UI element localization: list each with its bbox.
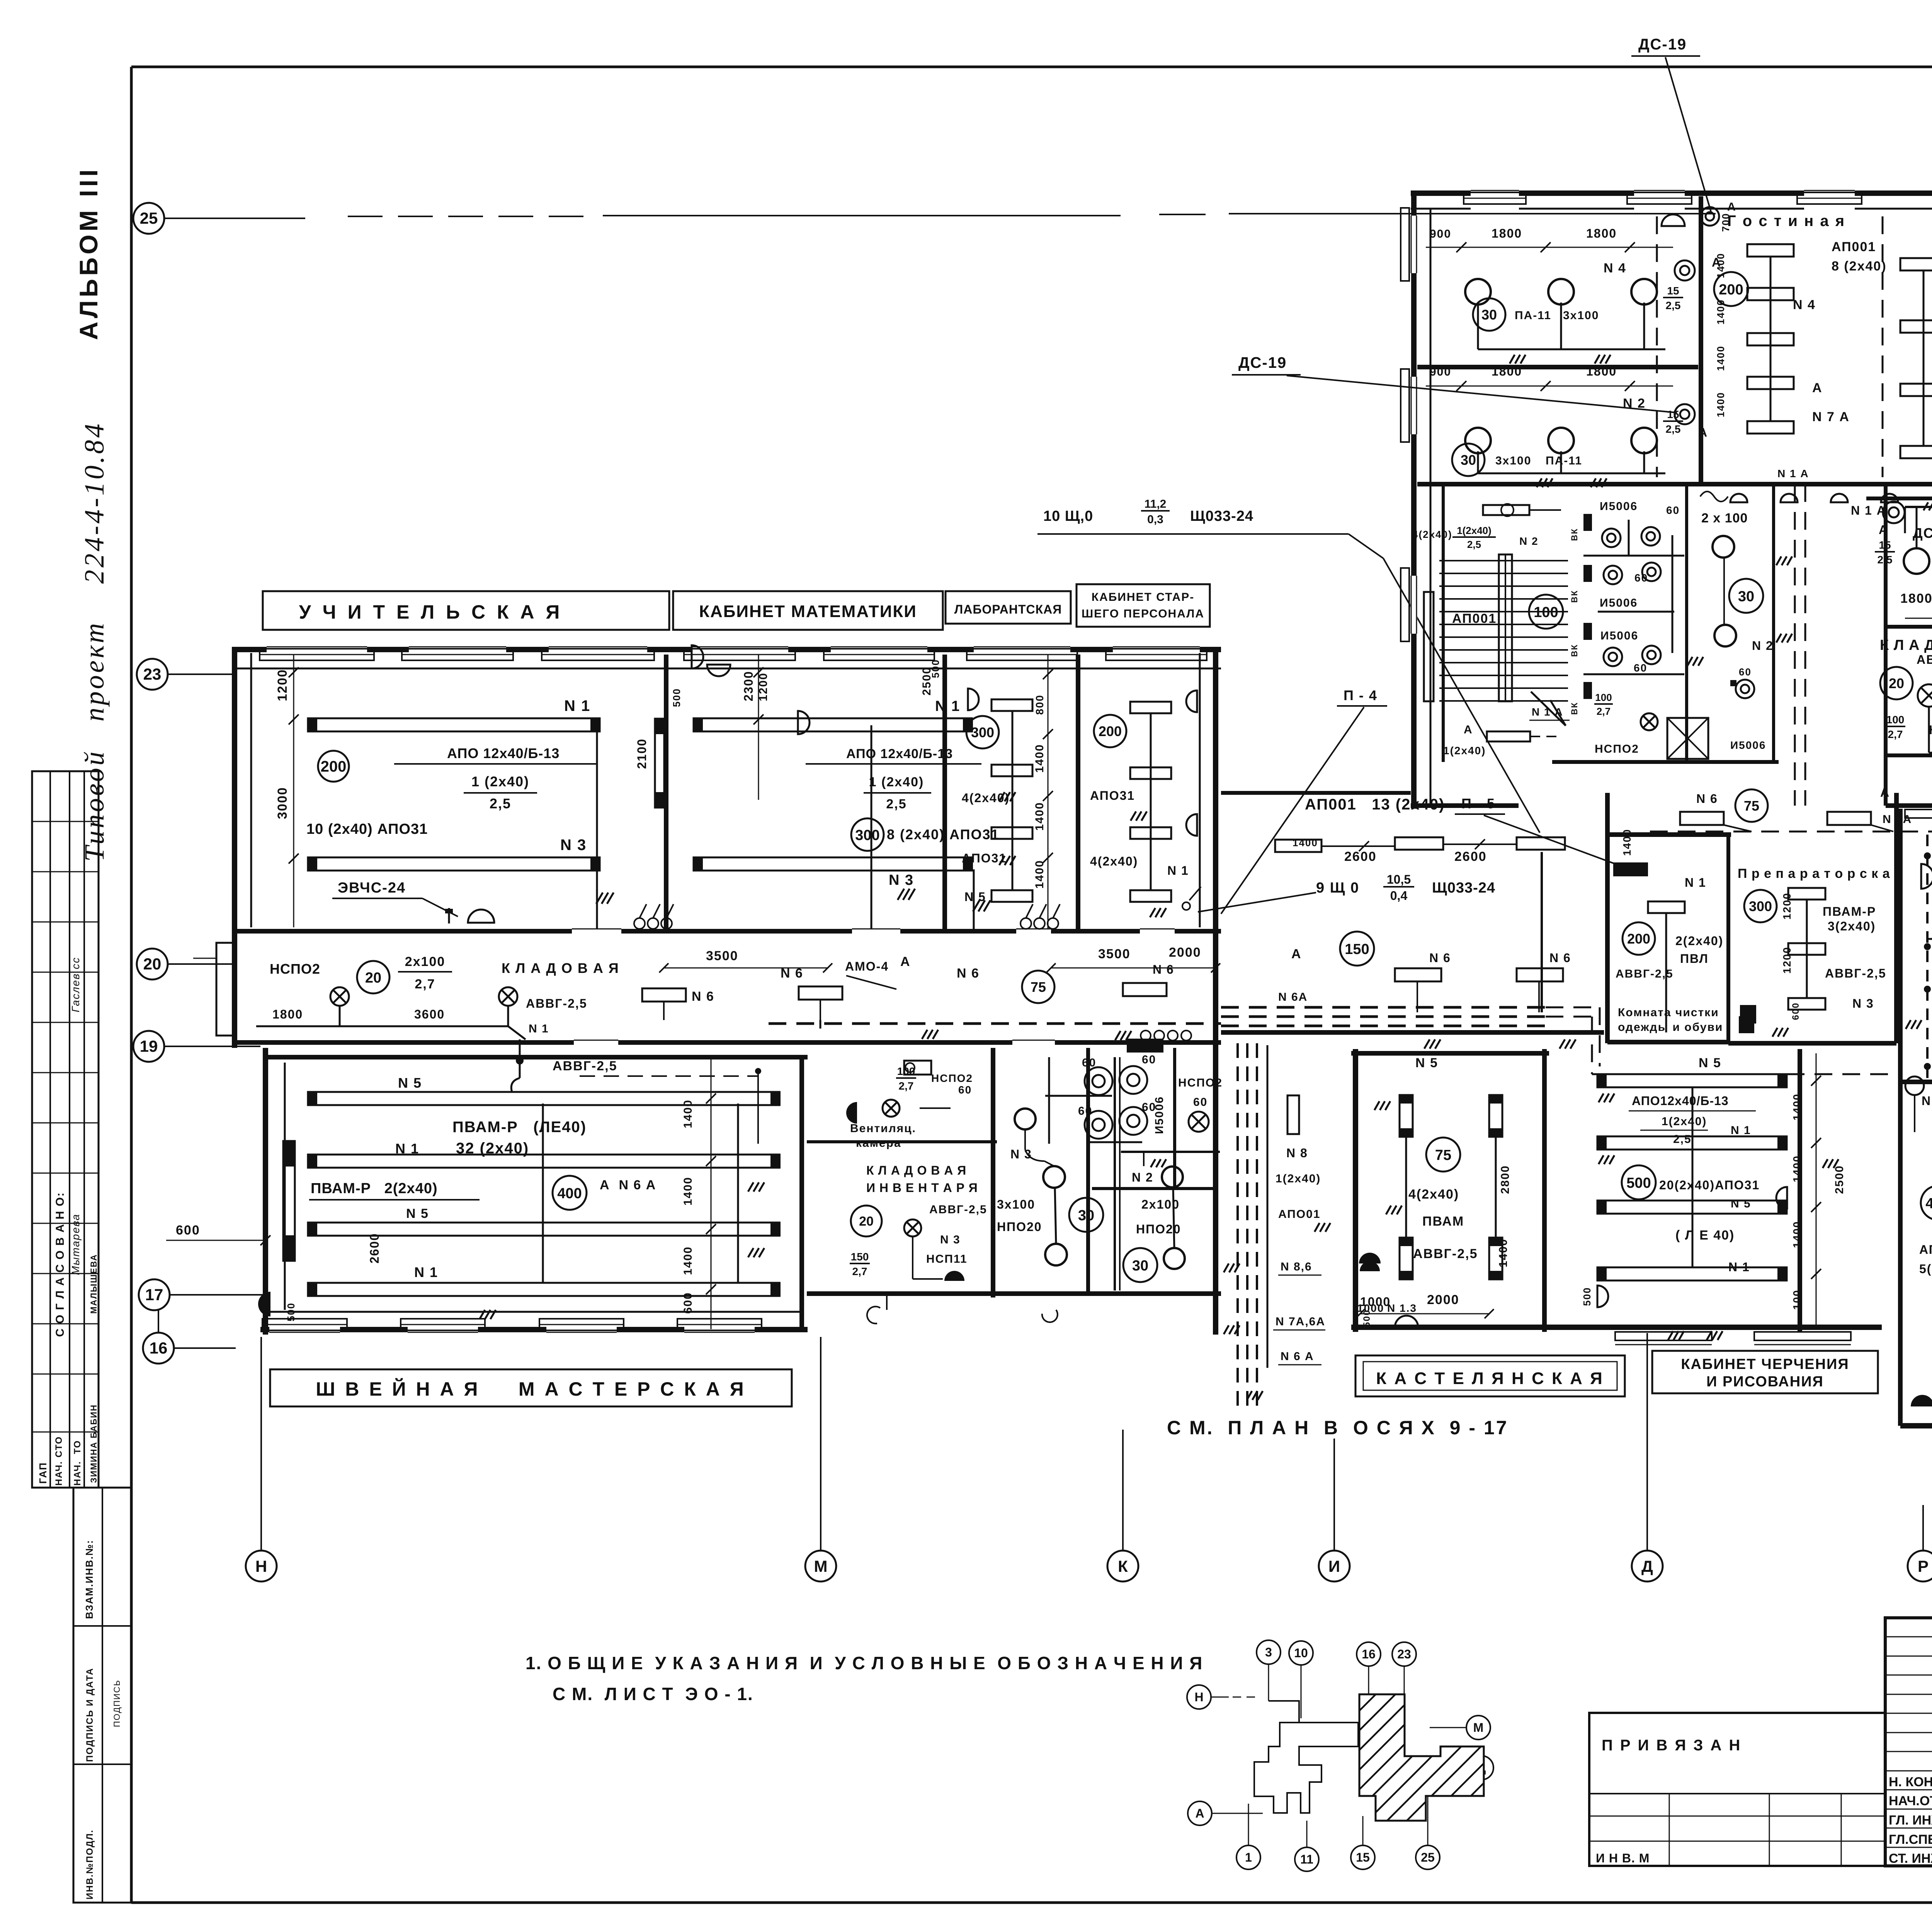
svg-text:1400: 1400 bbox=[682, 1177, 694, 1206]
svg-text:N 3: N 3 bbox=[940, 1233, 961, 1246]
svg-text:N 8: N 8 bbox=[1286, 1146, 1308, 1160]
svg-text:30: 30 bbox=[1132, 1258, 1148, 1274]
svg-text:3(2х40): 3(2х40) bbox=[1828, 919, 1876, 933]
svg-text:300: 300 bbox=[971, 724, 994, 740]
svg-text:N 5: N 5 bbox=[398, 1075, 422, 1091]
svg-text:23: 23 bbox=[1397, 1647, 1411, 1661]
svg-text:Р: Р bbox=[1918, 1557, 1929, 1575]
svg-text:15: 15 bbox=[1667, 285, 1679, 297]
svg-text:ДС-19: ДС-19 bbox=[1638, 36, 1687, 53]
svg-text:30: 30 bbox=[1078, 1207, 1094, 1224]
svg-text:ПВАМ: ПВАМ bbox=[1422, 1214, 1464, 1229]
svg-text:НСПО2: НСПО2 bbox=[270, 961, 320, 977]
svg-text:С М. Л И С Т Э О - 1.: С М. Л И С Т Э О - 1. bbox=[553, 1684, 753, 1704]
svg-text:1 (2х40): 1 (2х40) bbox=[869, 775, 924, 789]
svg-text:К Л А Д О В А Я: К Л А Д О В А Я bbox=[1880, 637, 1932, 653]
svg-text:Комната чистки: Комната чистки bbox=[1618, 1006, 1719, 1019]
svg-text:1400: 1400 bbox=[1497, 1238, 1510, 1267]
svg-text:N 6 А: N 6 А bbox=[1281, 1350, 1314, 1363]
svg-text:1800: 1800 bbox=[1586, 364, 1617, 378]
svg-text:11,2: 11,2 bbox=[1145, 498, 1167, 510]
svg-text:1. О Б Щ И Е У К А З А Н И Я: 1. О Б Щ И Е У К А З А Н И Я И У С Л О В… bbox=[526, 1653, 1203, 1673]
svg-text:ПА-11: ПА-11 bbox=[1546, 454, 1582, 467]
svg-text:N 6: N 6 bbox=[1549, 951, 1571, 965]
svg-text:АВВГ-2,5: АВВГ-2,5 bbox=[1413, 1246, 1478, 1261]
svg-text:N 6: N 6 bbox=[1429, 951, 1451, 965]
svg-text:А: А bbox=[1195, 1806, 1204, 1820]
svg-text:А: А bbox=[1464, 723, 1473, 736]
svg-text:НСПО2: НСПО2 bbox=[1595, 743, 1639, 755]
svg-text:НАЧ. ТО: НАЧ. ТО bbox=[72, 1440, 83, 1486]
svg-text:1(2х40): 1(2х40) bbox=[1276, 1172, 1321, 1185]
svg-text:800: 800 bbox=[1034, 694, 1046, 715]
svg-text:АПО 12х40/Б-13: АПО 12х40/Б-13 bbox=[846, 747, 953, 761]
svg-text:А N 6 А: А N 6 А bbox=[600, 1178, 656, 1192]
svg-text:АВВГ-2,5: АВВГ-2,5 bbox=[1917, 653, 1932, 667]
svg-text:И5006: И5006 bbox=[1600, 500, 1638, 513]
svg-text:2600: 2600 bbox=[1344, 849, 1377, 864]
svg-text:2,5: 2,5 bbox=[1666, 299, 1681, 311]
svg-text:И Н В Е Н Т А Р Я: И Н В Е Н Т А Р Я bbox=[866, 1181, 978, 1195]
svg-text:N 5: N 5 bbox=[1699, 1056, 1721, 1070]
svg-text:25: 25 bbox=[1421, 1850, 1435, 1864]
svg-text:Гаслев сс: Гаслев сс bbox=[70, 957, 82, 1012]
svg-text:60: 60 bbox=[1082, 1056, 1096, 1069]
svg-text:2500: 2500 bbox=[1833, 1165, 1846, 1194]
svg-text:М: М bbox=[814, 1557, 828, 1575]
svg-text:ВЗАМ.ИНВ.№:: ВЗАМ.ИНВ.№: bbox=[83, 1540, 95, 1619]
svg-text:И5006: И5006 bbox=[1730, 739, 1766, 751]
svg-text:ЗИМИНА БАБИН: ЗИМИНА БАБИН bbox=[89, 1404, 99, 1483]
svg-text:10 (2х40) АПО31: 10 (2х40) АПО31 bbox=[306, 821, 428, 837]
svg-text:ПВЛ: ПВЛ bbox=[1680, 952, 1709, 966]
svg-text:1400: 1400 bbox=[1621, 829, 1633, 856]
svg-text:N 1: N 1 bbox=[1685, 876, 1706, 889]
svg-text:16: 16 bbox=[150, 1339, 168, 1357]
svg-text:2,5: 2,5 bbox=[1878, 554, 1893, 566]
svg-text:2,7: 2,7 bbox=[852, 1265, 867, 1277]
svg-text:17: 17 bbox=[145, 1286, 163, 1304]
svg-text:N 1: N 1 bbox=[395, 1141, 419, 1156]
svg-text:С М. П Л А Н В О С Я Х 9 -: С М. П Л А Н В О С Я Х 9 - 17 bbox=[1167, 1417, 1509, 1439]
svg-text:АВВГ-2,5: АВВГ-2,5 bbox=[553, 1059, 617, 1073]
svg-text:4(2х40): 4(2х40) bbox=[1090, 854, 1138, 868]
svg-text:100: 100 bbox=[1595, 692, 1612, 703]
svg-text:1(2х40): 1(2х40) bbox=[1662, 1115, 1707, 1128]
svg-text:20(2х40)АПО31: 20(2х40)АПО31 bbox=[1659, 1178, 1760, 1192]
svg-text:N 6А: N 6А bbox=[1278, 991, 1308, 1003]
svg-text:1800: 1800 bbox=[1492, 226, 1522, 240]
svg-text:2,5: 2,5 bbox=[490, 796, 511, 811]
svg-text:8 (2х40): 8 (2х40) bbox=[1832, 259, 1887, 274]
svg-text:ПВАМ-Р: ПВАМ-Р bbox=[1823, 905, 1876, 918]
svg-text:2,7: 2,7 bbox=[415, 977, 435, 991]
svg-text:20: 20 bbox=[143, 955, 162, 973]
svg-text:60: 60 bbox=[1634, 572, 1648, 584]
svg-text:К А С Т Е Л Я Н С К А Я: К А С Т Е Л Я Н С К А Я bbox=[1376, 1369, 1604, 1388]
svg-text:75: 75 bbox=[1435, 1147, 1451, 1163]
svg-text:НАЧ.ОТД.: НАЧ.ОТД. bbox=[1889, 1794, 1932, 1808]
svg-text:15: 15 bbox=[1667, 408, 1679, 420]
svg-text:300: 300 bbox=[1749, 898, 1772, 914]
svg-text:4(2х40): 4(2х40) bbox=[1412, 529, 1452, 540]
svg-text:N 3: N 3 bbox=[560, 837, 587, 854]
svg-text:11: 11 bbox=[1300, 1852, 1313, 1866]
svg-text:N 1.3: N 1.3 bbox=[1387, 1302, 1417, 1314]
svg-text:И РИСОВАНИЯ: И РИСОВАНИЯ bbox=[1706, 1374, 1824, 1390]
svg-text:N 1: N 1 bbox=[1167, 864, 1189, 877]
svg-text:1400: 1400 bbox=[1791, 1155, 1803, 1182]
svg-text:3х100: 3х100 bbox=[1563, 309, 1599, 322]
svg-text:N 6: N 6 bbox=[957, 966, 980, 981]
svg-text:19: 19 bbox=[140, 1037, 158, 1055]
svg-text:камера: камера bbox=[856, 1137, 901, 1150]
svg-text:500: 500 bbox=[285, 1303, 297, 1321]
svg-text:N 6: N 6 bbox=[692, 989, 714, 1004]
svg-text:3500: 3500 bbox=[706, 949, 738, 963]
svg-text:ПВАМ-Р (ЛЕ40): ПВАМ-Р (ЛЕ40) bbox=[452, 1119, 587, 1136]
svg-text:200: 200 bbox=[1719, 282, 1743, 298]
svg-text:N 5: N 5 bbox=[406, 1206, 429, 1221]
svg-text:10,5: 10,5 bbox=[1387, 872, 1411, 886]
svg-text:1400: 1400 bbox=[682, 1246, 694, 1275]
svg-text:1400: 1400 bbox=[682, 1099, 694, 1128]
svg-text:ВК: ВК bbox=[1570, 644, 1579, 657]
svg-text:2,5: 2,5 bbox=[1467, 539, 1481, 550]
svg-text:3х100: 3х100 bbox=[1495, 454, 1531, 467]
svg-text:60: 60 bbox=[1634, 662, 1647, 674]
svg-text:1400: 1400 bbox=[1791, 1221, 1803, 1248]
svg-text:К Л А Д О В А Я: К Л А Д О В А Я bbox=[502, 960, 619, 976]
svg-text:2х100: 2х100 bbox=[405, 954, 446, 969]
svg-text:8 (2х40) АПО31: 8 (2х40) АПО31 bbox=[887, 826, 1000, 842]
svg-text:500: 500 bbox=[1362, 1309, 1372, 1327]
svg-text:N 7А,6А: N 7А,6А bbox=[1276, 1315, 1325, 1328]
svg-text:30: 30 bbox=[1738, 588, 1754, 605]
svg-text:С О Г Л А С О В А Н О:: С О Г Л А С О В А Н О: bbox=[54, 1192, 66, 1337]
svg-text:ГЛ.СПЕЦ.: ГЛ.СПЕЦ. bbox=[1889, 1832, 1932, 1847]
svg-text:2,5: 2,5 bbox=[1666, 423, 1681, 435]
svg-text:А: А bbox=[1698, 425, 1708, 439]
svg-text:100: 100 bbox=[1534, 604, 1558, 621]
svg-text:60: 60 bbox=[958, 1084, 972, 1096]
svg-text:Мытарева: Мытарева bbox=[70, 1214, 82, 1275]
svg-text:ПОДПИСЬ: ПОДПИСЬ bbox=[112, 1680, 122, 1727]
svg-text:N 6: N 6 bbox=[1696, 792, 1718, 806]
svg-text:КАБИНЕТ МАТЕМАТИКИ: КАБИНЕТ МАТЕМАТИКИ bbox=[699, 602, 917, 621]
svg-text:10 Щ,0: 10 Щ,0 bbox=[1043, 508, 1093, 524]
svg-text:N 5: N 5 bbox=[1415, 1056, 1438, 1070]
svg-text:1(2х40): 1(2х40) bbox=[1443, 745, 1486, 757]
svg-text:N 5: N 5 bbox=[1731, 1197, 1751, 1210]
svg-text:АВВГ-2,5: АВВГ-2,5 bbox=[1825, 966, 1886, 980]
svg-text:1400: 1400 bbox=[1791, 1093, 1803, 1121]
svg-text:АПО01: АПО01 bbox=[1278, 1208, 1321, 1221]
svg-text:Г о с т и н а я: Г о с т и н а я bbox=[1727, 213, 1845, 230]
svg-text:МАЛЫШЕВА: МАЛЫШЕВА bbox=[89, 1254, 99, 1314]
svg-text:И5006: И5006 bbox=[1153, 1096, 1166, 1134]
svg-text:Щ033-24: Щ033-24 bbox=[1432, 880, 1495, 896]
svg-text:1400: 1400 bbox=[1715, 392, 1726, 417]
svg-text:N 8: N 8 bbox=[1922, 1094, 1932, 1108]
svg-text:НСП11: НСП11 bbox=[926, 1253, 968, 1265]
svg-text:N 1 А: N 1 А bbox=[1851, 503, 1886, 517]
svg-text:Щ033-24: Щ033-24 bbox=[1190, 508, 1253, 524]
svg-text:N 3: N 3 bbox=[1010, 1147, 1032, 1161]
svg-text:500: 500 bbox=[1626, 1175, 1651, 1191]
svg-text:1400: 1400 bbox=[1715, 345, 1726, 371]
svg-text:1800: 1800 bbox=[1492, 364, 1522, 378]
svg-text:0,4: 0,4 bbox=[1390, 889, 1408, 903]
svg-text:5(2х40): 5(2х40) bbox=[1919, 1262, 1932, 1276]
svg-text:60: 60 bbox=[1666, 504, 1680, 516]
svg-text:1: 1 bbox=[1245, 1850, 1252, 1864]
svg-text:2 х 100: 2 х 100 bbox=[1701, 511, 1748, 525]
svg-text:А: А bbox=[900, 954, 911, 969]
svg-text:Н: Н bbox=[1194, 1690, 1203, 1704]
svg-text:Ш В Е Й Н А Я М А С Т Е Р: Ш В Е Й Н А Я М А С Т Е Р С К А Я bbox=[316, 1378, 746, 1400]
svg-text:одежды и обуви: одежды и обуви bbox=[1618, 1021, 1723, 1034]
svg-text:400: 400 bbox=[1925, 1195, 1932, 1212]
svg-text:АПО12х40/Б-13: АПО12х40/Б-13 bbox=[1632, 1094, 1729, 1108]
svg-text:2000: 2000 bbox=[1427, 1292, 1459, 1307]
svg-text:ДС-19: ДС-19 bbox=[1238, 354, 1287, 371]
svg-text:N 2: N 2 bbox=[1132, 1170, 1153, 1184]
svg-text:Н. КОНТР.: Н. КОНТР. bbox=[1889, 1775, 1932, 1789]
svg-text:900: 900 bbox=[1430, 366, 1451, 378]
svg-text:2,7: 2,7 bbox=[899, 1080, 914, 1092]
svg-text:N 1: N 1 bbox=[414, 1264, 438, 1280]
svg-text:ШЕГО ПЕРСОНАЛА: ШЕГО ПЕРСОНАЛА bbox=[1082, 607, 1204, 620]
svg-text:1800: 1800 bbox=[1586, 226, 1617, 240]
svg-text:СТ. ИНЖ.: СТ. ИНЖ. bbox=[1889, 1851, 1932, 1866]
svg-text:К: К bbox=[1118, 1557, 1128, 1575]
svg-text:N 1: N 1 bbox=[935, 698, 960, 714]
svg-text:500: 500 bbox=[1581, 1287, 1593, 1306]
svg-text:2600: 2600 bbox=[1454, 849, 1487, 864]
svg-text:АВВГ-2,5: АВВГ-2,5 bbox=[526, 997, 587, 1010]
svg-text:Типовой проект 224-4-10.8: Типовой проект 224-4-10.84 bbox=[79, 422, 110, 862]
svg-text:КАБИНЕТ ЧЕРЧЕНИЯ: КАБИНЕТ ЧЕРЧЕНИЯ bbox=[1681, 1356, 1849, 1372]
svg-text:2(2х40): 2(2х40) bbox=[1675, 934, 1723, 948]
svg-text:1400: 1400 bbox=[1715, 253, 1726, 278]
svg-text:60: 60 bbox=[1193, 1096, 1207, 1109]
svg-text:( Л Е 40): ( Л Е 40) bbox=[1675, 1228, 1735, 1243]
svg-text:200: 200 bbox=[1099, 723, 1122, 739]
svg-text:АП001: АП001 bbox=[1832, 240, 1876, 254]
svg-text:N 1: N 1 bbox=[529, 1022, 549, 1035]
svg-text:N 1: N 1 bbox=[1728, 1260, 1750, 1274]
svg-text:300: 300 bbox=[855, 827, 879, 843]
svg-text:1400: 1400 bbox=[1293, 837, 1318, 849]
svg-text:П - 4: П - 4 bbox=[1344, 687, 1378, 703]
svg-text:N 8,6: N 8,6 bbox=[1281, 1260, 1312, 1273]
svg-text:30: 30 bbox=[1461, 452, 1476, 468]
svg-text:3600: 3600 bbox=[414, 1007, 445, 1021]
svg-text:900: 900 bbox=[1430, 228, 1451, 240]
svg-text:НСПО2: НСПО2 bbox=[1178, 1076, 1223, 1089]
svg-text:Д: Д bbox=[1641, 1557, 1653, 1575]
svg-text:2,5: 2,5 bbox=[886, 797, 906, 811]
svg-text:60: 60 bbox=[1739, 666, 1752, 678]
svg-text:АПО31: АПО31 bbox=[1919, 1243, 1932, 1257]
svg-text:АПО 12х40/Б-13: АПО 12х40/Б-13 bbox=[447, 745, 560, 761]
svg-text:И5006: И5006 bbox=[1600, 597, 1638, 609]
svg-text:0,3: 0,3 bbox=[1147, 513, 1163, 526]
svg-text:150: 150 bbox=[1345, 941, 1369, 957]
svg-text:2,5: 2,5 bbox=[1673, 1133, 1692, 1146]
svg-text:60: 60 bbox=[1142, 1053, 1156, 1066]
svg-text:А: А bbox=[1812, 381, 1823, 395]
svg-text:500: 500 bbox=[671, 688, 682, 707]
svg-text:N 1 А: N 1 А bbox=[1777, 468, 1809, 480]
svg-text:А: А bbox=[1291, 947, 1302, 961]
svg-text:4(2х40): 4(2х40) bbox=[962, 791, 1010, 805]
svg-text:А: А bbox=[1727, 201, 1736, 213]
svg-text:75: 75 bbox=[1744, 798, 1759, 814]
svg-text:3: 3 bbox=[1265, 1645, 1272, 1659]
svg-text:N 2: N 2 bbox=[1519, 535, 1539, 547]
svg-text:1 (2х40): 1 (2х40) bbox=[471, 774, 529, 789]
svg-text:200: 200 bbox=[1627, 931, 1650, 947]
svg-text:1400: 1400 bbox=[1033, 744, 1046, 773]
svg-text:ГЛ. ИНЖ.: ГЛ. ИНЖ. bbox=[1889, 1813, 1932, 1828]
svg-text:1400: 1400 bbox=[1033, 802, 1046, 831]
svg-text:1400: 1400 bbox=[1033, 860, 1046, 889]
svg-text:23: 23 bbox=[143, 665, 162, 683]
svg-text:К Л А Д О В А Я: К Л А Д О В А Я bbox=[866, 1163, 966, 1177]
svg-text:500: 500 bbox=[930, 659, 941, 678]
svg-text:3500: 3500 bbox=[1098, 947, 1131, 961]
svg-text:600: 600 bbox=[682, 1292, 694, 1314]
svg-text:ИНВ.№ПОДЛ.: ИНВ.№ПОДЛ. bbox=[85, 1829, 95, 1899]
svg-text:1200: 1200 bbox=[1781, 893, 1793, 920]
svg-text:2800: 2800 bbox=[1499, 1165, 1512, 1194]
svg-text:3х100: 3х100 bbox=[997, 1197, 1035, 1211]
svg-text:ВК: ВК bbox=[1570, 702, 1579, 715]
svg-text:150: 150 bbox=[851, 1251, 869, 1263]
svg-text:2,7: 2,7 bbox=[1888, 728, 1903, 740]
svg-text:15: 15 bbox=[1879, 539, 1891, 551]
svg-text:ВК: ВК bbox=[1570, 528, 1579, 541]
svg-text:2000: 2000 bbox=[1169, 945, 1201, 960]
svg-text:М: М bbox=[1473, 1721, 1484, 1735]
svg-text:N 3: N 3 bbox=[889, 872, 914, 888]
svg-text:25: 25 bbox=[140, 209, 158, 227]
svg-text:N 6: N 6 bbox=[1153, 963, 1174, 976]
svg-text:N 4: N 4 bbox=[1793, 298, 1816, 312]
svg-text:2,7: 2,7 bbox=[1597, 706, 1611, 717]
svg-text:АП001: АП001 bbox=[1452, 611, 1497, 626]
svg-text:ПВАМ-Р 2(2х40): ПВАМ-Р 2(2х40) bbox=[311, 1180, 438, 1197]
svg-text:АВВГ-2,5: АВВГ-2,5 bbox=[929, 1203, 987, 1216]
svg-text:АМО-4: АМО-4 bbox=[845, 959, 889, 973]
svg-text:3000: 3000 bbox=[275, 787, 290, 819]
svg-text:2300: 2300 bbox=[742, 671, 755, 701]
svg-text:N 5: N 5 bbox=[964, 890, 986, 904]
svg-text:600: 600 bbox=[1791, 1002, 1801, 1020]
svg-text:30: 30 bbox=[1481, 307, 1497, 323]
svg-text:1(2х40): 1(2х40) bbox=[1457, 525, 1492, 536]
svg-text:НАЧ. СТО: НАЧ. СТО bbox=[54, 1436, 64, 1486]
svg-text:600: 600 bbox=[176, 1223, 200, 1238]
svg-text:2х100: 2х100 bbox=[1141, 1197, 1180, 1211]
svg-text:100: 100 bbox=[1791, 1289, 1803, 1310]
svg-text:N 3: N 3 bbox=[1852, 997, 1874, 1010]
svg-text:N 4: N 4 bbox=[1604, 261, 1626, 275]
svg-text:1200: 1200 bbox=[1781, 947, 1793, 974]
svg-text:1200: 1200 bbox=[275, 669, 290, 701]
svg-text:4(2х40): 4(2х40) bbox=[1408, 1187, 1459, 1202]
svg-text:N 7 А: N 7 А bbox=[1812, 410, 1850, 424]
svg-text:Вентиляц.: Вентиляц. bbox=[850, 1122, 916, 1135]
svg-text:НСПО2: НСПО2 bbox=[931, 1072, 973, 1084]
svg-text:400: 400 bbox=[557, 1185, 582, 1202]
svg-text:А: А bbox=[1879, 523, 1888, 537]
svg-text:N 2: N 2 bbox=[1752, 639, 1774, 653]
svg-text:20: 20 bbox=[859, 1214, 874, 1229]
svg-text:ВК: ВК bbox=[1570, 590, 1579, 603]
svg-text:60: 60 bbox=[1078, 1105, 1092, 1117]
svg-text:П р е п а р а т о р с к а я: П р е п а р а т о р с к а я bbox=[1738, 866, 1902, 881]
svg-text:П Р И В Я З А Н: П Р И В Я З А Н bbox=[1602, 1737, 1742, 1754]
svg-text:1800: 1800 bbox=[1900, 591, 1932, 606]
svg-text:У Ч И Т Е Л Ь С К А Я: У Ч И Т Е Л Ь С К А Я bbox=[299, 601, 563, 623]
svg-text:200: 200 bbox=[321, 758, 347, 775]
svg-text:100: 100 bbox=[1886, 714, 1905, 726]
svg-text:ПА-11: ПА-11 bbox=[1515, 309, 1551, 322]
svg-text:15: 15 bbox=[1356, 1850, 1370, 1864]
svg-text:ЛАБОРАНТСКАЯ: ЛАБОРАНТСКАЯ bbox=[954, 602, 1062, 616]
svg-text:2600: 2600 bbox=[367, 1233, 381, 1263]
svg-text:И: И bbox=[1328, 1557, 1340, 1575]
svg-text:1800: 1800 bbox=[272, 1007, 303, 1021]
svg-text:НПО20: НПО20 bbox=[1136, 1222, 1181, 1236]
svg-text:2100: 2100 bbox=[635, 738, 649, 769]
svg-text:20: 20 bbox=[365, 970, 381, 986]
svg-text:АВВГ-2,5: АВВГ-2,5 bbox=[1616, 968, 1673, 980]
svg-text:1000: 1000 bbox=[1360, 1295, 1391, 1309]
svg-text:N 1: N 1 bbox=[1731, 1124, 1751, 1137]
svg-text:И5006: И5006 bbox=[1600, 629, 1638, 642]
svg-text:ЭВЧС-24: ЭВЧС-24 bbox=[338, 880, 406, 896]
svg-text:16: 16 bbox=[1362, 1647, 1376, 1661]
svg-text:20: 20 bbox=[1889, 675, 1904, 691]
svg-text:9 Щ 0: 9 Щ 0 bbox=[1316, 880, 1359, 896]
svg-text:32 (2х40): 32 (2х40) bbox=[456, 1140, 529, 1157]
svg-text:АЛЬБОМ III: АЛЬБОМ III bbox=[74, 167, 103, 340]
svg-text:И Н В. М: И Н В. М bbox=[1596, 1851, 1650, 1865]
svg-text:ГАП: ГАП bbox=[37, 1462, 49, 1484]
svg-text:Н: Н bbox=[255, 1557, 267, 1575]
svg-text:75: 75 bbox=[1031, 979, 1046, 995]
svg-text:N 1: N 1 bbox=[564, 697, 590, 714]
svg-text:АПО31: АПО31 bbox=[1090, 789, 1135, 803]
svg-text:ПОДПИСЬ И ДАТА: ПОДПИСЬ И ДАТА bbox=[85, 1668, 95, 1762]
svg-text:КАБИНЕТ СТАР-: КАБИНЕТ СТАР- bbox=[1092, 591, 1194, 604]
svg-text:10: 10 bbox=[1294, 1646, 1308, 1660]
svg-text:НПО20: НПО20 bbox=[997, 1220, 1042, 1234]
